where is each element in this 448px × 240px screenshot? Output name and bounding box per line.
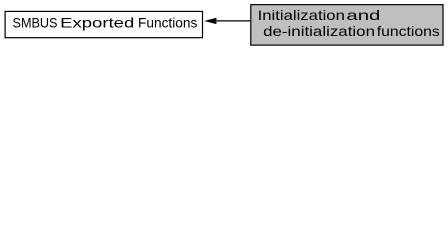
svg-text:SMBUS: SMBUS — [13, 15, 58, 31]
svg-text:functions: functions — [377, 23, 440, 39]
svg-text:and: and — [346, 7, 380, 23]
svg-text:Functions: Functions — [138, 15, 197, 31]
arrowhead — [204, 18, 216, 24]
svg-text:de-initialization: de-initialization — [263, 23, 375, 39]
svg-text:Exported: Exported — [60, 15, 134, 31]
svg-text:Initialization: Initialization — [258, 7, 345, 23]
edge arrow — [204, 18, 251, 24]
wire — [216, 20, 250, 22]
node: SMBUS Exported Functions — [5, 11, 202, 37]
node: Initialization and de-initialization functions — [251, 5, 443, 45]
